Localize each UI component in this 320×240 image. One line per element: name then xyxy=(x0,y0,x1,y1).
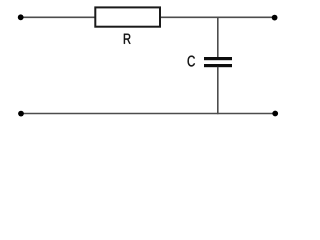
node: input terminal bottom-left xyxy=(18,111,24,117)
label R xyxy=(124,34,131,44)
resistor R xyxy=(95,7,160,26)
capacitor C xyxy=(204,57,232,67)
wire: capacitor top lead (from top rail junction down to plate) xyxy=(217,17,219,57)
wire: top rail left segment (input terminal to resistor) xyxy=(21,16,95,18)
node: input terminal top-left xyxy=(18,14,24,20)
wire: capacitor bottom lead (from plate down to bottom rail) xyxy=(217,67,219,114)
wire: bottom rail xyxy=(21,113,275,115)
wire: top rail right segment (resistor to output terminal) xyxy=(160,16,275,18)
node: output terminal bottom-right xyxy=(272,111,278,117)
node: output terminal top-right xyxy=(272,15,278,21)
label C xyxy=(188,56,195,67)
